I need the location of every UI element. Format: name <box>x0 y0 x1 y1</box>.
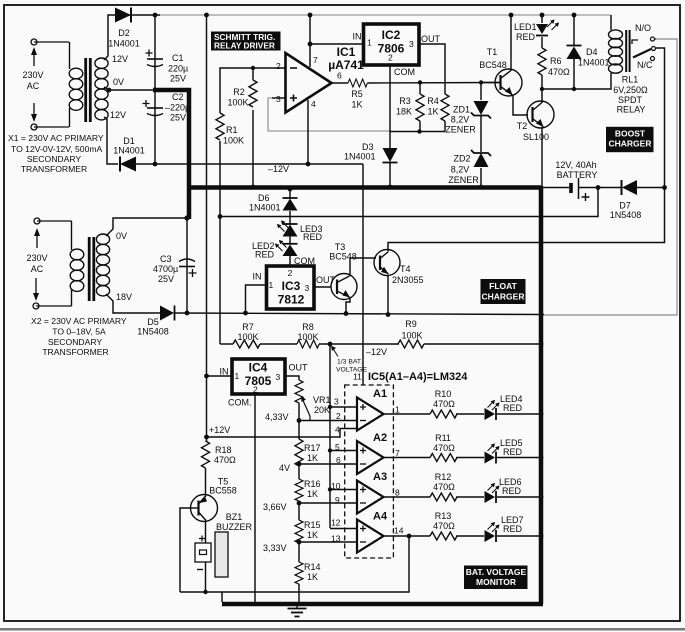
svg-text:D5: D5 <box>147 317 159 327</box>
svg-text:R13: R13 <box>435 511 452 521</box>
value label: R6 470ohm <box>548 56 570 77</box>
wire: -12V vertical rail x=363 down to LM324 pin 11 <box>362 164 364 385</box>
resistor R7 <box>233 340 260 348</box>
label box: FLOAT CHARGER <box>481 279 526 304</box>
wire: IC2 OUT down to R3/R4 node line <box>419 44 445 94</box>
junction: top +12V rail nodes <box>153 13 577 47</box>
svg-text:12V: 12V <box>110 110 126 120</box>
value label: R12 470ohm <box>433 472 455 492</box>
part label: LED6 RED <box>499 477 522 496</box>
svg-text:R7: R7 <box>242 322 254 332</box>
pin labels: IC1 pins 2,3,7,4,6 <box>276 55 342 109</box>
IC4 7805 box <box>232 359 285 394</box>
node label: 230V AC (X1) <box>22 70 43 91</box>
wire: resistor ladder column x=299 <box>298 403 300 604</box>
svg-text:470Ω: 470Ω <box>214 455 236 465</box>
svg-text:A4: A4 <box>373 511 388 523</box>
svg-text:0V: 0V <box>113 77 124 87</box>
value label: R8 100K <box>297 322 318 342</box>
value label: R14 1K <box>304 562 321 582</box>
junction: X2 0V to bus node <box>184 215 189 220</box>
resistor R9 <box>398 340 424 348</box>
svg-text:4: 4 <box>335 425 340 435</box>
wire: X2 0V tap to thick bus bottom end <box>106 218 189 236</box>
svg-text:A1: A1 <box>373 388 387 400</box>
wire: relay coil top to rail corner <box>610 15 612 30</box>
svg-text:R9: R9 <box>405 319 417 329</box>
part label: IC5 heading <box>368 371 468 383</box>
relay RL1 coil and core <box>609 30 631 73</box>
svg-text:1: 1 <box>269 280 274 290</box>
svg-text:R10: R10 <box>435 389 452 399</box>
svg-text:R1: R1 <box>226 125 238 135</box>
svg-text:D4: D4 <box>586 47 598 57</box>
svg-text:IN: IN <box>353 32 362 42</box>
svg-text:BC558: BC558 <box>209 486 237 496</box>
wire: T4 emitter down to line y=314.5 <box>387 275 389 315</box>
svg-text:A3: A3 <box>373 471 387 483</box>
value label: C1 220u 25V <box>168 53 188 84</box>
junction: A4 output and buzzer loop nodes <box>203 534 411 595</box>
op-amp A1 <box>357 398 384 431</box>
svg-text:C3: C3 <box>160 254 172 264</box>
svg-text:D6: D6 <box>258 193 270 203</box>
svg-text:–12V: –12V <box>268 164 289 174</box>
svg-text:R8: R8 <box>302 322 314 332</box>
svg-text:R5: R5 <box>351 89 363 99</box>
part label: T3 BC548 <box>329 242 357 262</box>
svg-text:6V,250Ω: 6V,250Ω <box>613 85 648 95</box>
svg-text:8,2V: 8,2V <box>451 115 470 125</box>
LED LED3 <box>277 220 298 236</box>
value label: VR1 20K <box>313 395 331 415</box>
wire: IC4 COM down to bottom bus <box>254 394 256 604</box>
svg-text:VR1: VR1 <box>313 395 331 405</box>
part label: BZ1 BUZZER <box>216 512 253 532</box>
junction: X1 0V tap node <box>107 88 112 93</box>
svg-text:ZENER: ZENER <box>445 125 476 135</box>
svg-text:20K: 20K <box>314 405 330 415</box>
value label: C2 220u 25V <box>165 92 190 123</box>
svg-text:R2: R2 <box>233 87 245 97</box>
resistor R2 <box>249 80 257 107</box>
node label: N/O N/C <box>635 23 653 70</box>
wire: LED1/R6 column from top rail <box>541 15 543 89</box>
svg-text:N/O: N/O <box>635 23 651 33</box>
value label: R18 470ohm <box>214 445 236 465</box>
svg-text:BUZZER: BUZZER <box>216 522 253 532</box>
svg-text:IC5(A1–A4)=LM324: IC5(A1–A4)=LM324 <box>368 371 468 383</box>
svg-text:6: 6 <box>336 455 341 465</box>
svg-text:FLOAT: FLOAT <box>489 281 518 291</box>
svg-text:SECONDARY: SECONDARY <box>27 154 82 164</box>
svg-text:1N4001: 1N4001 <box>578 58 610 68</box>
svg-text:T1: T1 <box>487 47 498 57</box>
svg-text:12V: 12V <box>112 54 128 64</box>
svg-text:1K: 1K <box>307 489 318 499</box>
part label: LED5 RED <box>500 438 523 457</box>
wire: C1/C2 column <box>154 15 156 164</box>
wire: comparator output rows to LEDs and bus <box>383 414 541 536</box>
wire: X1 0V tap to thick bus <box>104 87 155 90</box>
svg-text:D2: D2 <box>118 28 130 38</box>
part label: IC1 uA741 <box>328 45 364 72</box>
value label: ZD2 8.2V ZENER <box>448 154 479 186</box>
svg-text:1N4001: 1N4001 <box>344 152 376 162</box>
diode D3 <box>383 148 398 163</box>
svg-text:ZENER: ZENER <box>448 175 479 185</box>
svg-text:100K: 100K <box>227 98 248 108</box>
svg-text:1N5408: 1N5408 <box>610 210 642 220</box>
svg-text:470Ω: 470Ω <box>433 443 455 453</box>
wire: op-amp pin3 stub <box>272 97 285 99</box>
wire: op-amp output through R5 to comparator node <box>331 82 500 85</box>
part label: T4 2N3055 <box>392 264 424 285</box>
svg-text:IN: IN <box>220 367 229 377</box>
wire: relay common pole to D7 line <box>656 48 665 188</box>
svg-text:BOOST: BOOST <box>615 128 646 138</box>
resistor R15 <box>295 520 303 543</box>
svg-text:MONITOR: MONITOR <box>476 577 516 587</box>
resistor R8 <box>297 340 319 348</box>
value label: D6 1N4001 <box>249 193 281 213</box>
svg-text:RED: RED <box>502 486 522 496</box>
resistor R4 <box>441 94 449 121</box>
part label: LED4 RED <box>500 394 523 413</box>
wire: relay N/O contact to float-charge sense line (gray right portion) <box>544 39 677 315</box>
svg-text:25V: 25V <box>158 274 174 284</box>
svg-text:14: 14 <box>394 526 404 536</box>
wire: T1 base from node <box>481 82 500 84</box>
wire: X1 12V top tap through D2 to top rail <box>104 15 160 60</box>
svg-text:100K: 100K <box>401 331 422 341</box>
svg-text:3: 3 <box>409 39 414 49</box>
svg-text:7: 7 <box>395 448 400 458</box>
wire: IC2 input from top rail <box>310 43 364 45</box>
LED LED7 <box>485 522 500 542</box>
svg-text:VOLTAGE: VOLTAGE <box>336 367 368 374</box>
svg-text:OUT: OUT <box>289 363 309 373</box>
svg-text:D1: D1 <box>123 136 135 146</box>
svg-text:N/C: N/C <box>637 60 653 70</box>
node label: 3.66V <box>263 502 287 512</box>
zener ZD2 <box>471 150 491 167</box>
svg-text:12: 12 <box>331 518 341 528</box>
svg-text:COM: COM <box>294 256 315 266</box>
wire: comparator plus input lines from sense column <box>330 407 357 529</box>
transformer X1 <box>69 42 108 127</box>
svg-text:RELAY: RELAY <box>617 105 646 115</box>
value label: R4 1K <box>427 96 439 117</box>
part label: battery 12V 40Ah <box>555 160 597 180</box>
svg-text:18V: 18V <box>116 292 132 302</box>
junction: ground bus taps <box>288 185 484 192</box>
node label: X2 description <box>31 316 127 357</box>
svg-text:18K: 18K <box>396 107 412 117</box>
svg-text:X2 = 230V AC PRIMARY: X2 = 230V AC PRIMARY <box>31 316 127 326</box>
LED LED1 <box>536 19 559 35</box>
svg-text:T4: T4 <box>400 264 411 274</box>
svg-text:1: 1 <box>367 38 372 48</box>
value label: R7 100K <box>237 322 258 342</box>
part label: LED2 RED <box>252 241 275 260</box>
svg-text:9: 9 <box>335 495 340 505</box>
svg-text:CHARGER: CHARGER <box>482 292 525 302</box>
svg-text:7805: 7805 <box>245 374 272 388</box>
wire: 1/3 battery voltage tap down to comparator + inputs <box>329 344 331 528</box>
node label: 4V <box>279 463 290 473</box>
svg-text:3: 3 <box>276 372 281 382</box>
resistor R13 <box>430 532 457 540</box>
svg-text:+12V: +12V <box>209 425 230 435</box>
svg-text:RED: RED <box>503 447 523 457</box>
svg-text:R3: R3 <box>399 96 411 106</box>
wire: battery row y=187.5 <box>541 187 665 189</box>
svg-text:4,33V: 4,33V <box>265 412 289 422</box>
svg-text:1K: 1K <box>427 107 438 117</box>
resistor R12 <box>430 493 457 501</box>
wire: +12V long vertical x=206.5 from top rail to IC4 IN and +12V node <box>206 15 208 437</box>
wire: T3 collector to T4 base <box>350 258 376 276</box>
preset VR1 20K <box>295 380 310 421</box>
part label: T2 SL100 <box>517 121 549 142</box>
svg-text:RELAY DRIVER: RELAY DRIVER <box>214 41 275 51</box>
svg-text:IC1: IC1 <box>337 45 356 59</box>
wire: R2 column <box>252 68 254 187</box>
svg-text:ZD2: ZD2 <box>453 154 470 164</box>
wire: IC2 COM / D3 column to ground bus <box>389 65 391 187</box>
svg-text:3: 3 <box>305 283 310 293</box>
IC3 7812 box <box>267 266 315 309</box>
resistor R11 <box>430 454 457 462</box>
transistor T3 BC548 <box>331 274 357 300</box>
junction: C2 negative node <box>153 162 158 167</box>
svg-text:TO 0–18V, 5A: TO 0–18V, 5A <box>52 327 106 337</box>
part label: T5 BC558 <box>209 477 237 496</box>
resistor R14 <box>295 562 303 584</box>
svg-text:7: 7 <box>313 55 318 65</box>
svg-text:T2: T2 <box>517 121 528 131</box>
svg-text:RED: RED <box>303 232 323 242</box>
svg-text:µA741: µA741 <box>328 58 364 72</box>
svg-text:1/3 BAT.: 1/3 BAT. <box>337 359 362 366</box>
svg-text:100K: 100K <box>297 332 318 342</box>
capacitor C1 <box>146 50 164 67</box>
svg-text:BATTERY: BATTERY <box>557 170 598 180</box>
wire: C3 column <box>186 219 188 313</box>
svg-text:SECONDARY: SECONDARY <box>48 337 103 347</box>
AC source terminals and arrows for X1 <box>31 39 69 130</box>
LED LED4 <box>485 400 500 420</box>
svg-text:1N4001: 1N4001 <box>108 39 140 49</box>
diode D1 <box>120 157 136 172</box>
svg-text:2N3055: 2N3055 <box>392 275 424 285</box>
wire: +12V feed line y=437 to LM324 pin4 <box>207 429 357 438</box>
battery BT 12V 40Ah <box>571 178 590 201</box>
svg-text:3,66V: 3,66V <box>263 502 287 512</box>
svg-text:4700µ: 4700µ <box>153 264 178 274</box>
wire: D7/relay node down to T4 collector line <box>388 188 665 252</box>
svg-text:R18: R18 <box>215 445 232 455</box>
wire: op-amp pin7 from top rail <box>309 15 311 67</box>
node label: X1 description <box>8 133 104 174</box>
wire: R6/D4/relay-coil bottom node to T2 collector <box>542 73 611 103</box>
svg-text:COM: COM <box>394 67 415 77</box>
svg-text:CHARGER: CHARGER <box>609 139 652 149</box>
svg-text:R15: R15 <box>304 520 321 530</box>
part label: RL1 relay <box>613 75 648 115</box>
net label: +12V <box>209 425 230 435</box>
transistor T1 BC548 <box>495 69 522 96</box>
svg-text:BZ1: BZ1 <box>226 512 243 522</box>
AC source terminals and arrows for X2 <box>33 218 72 309</box>
svg-text:LED1: LED1 <box>514 22 537 32</box>
svg-text:470Ω: 470Ω <box>433 482 455 492</box>
svg-text:1: 1 <box>395 405 400 415</box>
value label: R10 470ohm <box>433 389 455 409</box>
svg-text:R12: R12 <box>435 472 452 482</box>
svg-text:SL100: SL100 <box>523 132 549 142</box>
net label: -12V (left) <box>268 164 289 174</box>
svg-text:7812: 7812 <box>278 293 305 307</box>
LED LED6 <box>485 483 500 503</box>
svg-text:–12V: –12V <box>366 347 387 357</box>
wire: battery sense vertical x=220 (op-amp pin2 divider) <box>220 68 285 344</box>
svg-text:8,2V: 8,2V <box>451 165 470 175</box>
wire: T1 emitter to T2 base <box>513 95 528 115</box>
svg-text:3: 3 <box>334 397 339 407</box>
svg-text:25V: 25V <box>170 74 186 84</box>
part label: T1 BC548 <box>479 47 507 70</box>
junction: op-amp divider nodes <box>251 66 311 190</box>
transformer X2 <box>70 221 109 306</box>
svg-text:1N5408: 1N5408 <box>137 327 169 337</box>
svg-text:2: 2 <box>276 61 281 71</box>
svg-text:IC4: IC4 <box>249 361 268 375</box>
svg-text:TO 12V-0V-12V, 500mA: TO 12V-0V-12V, 500mA <box>11 144 103 154</box>
value label: R5 1K <box>351 89 363 110</box>
svg-text:OUT: OUT <box>421 34 441 44</box>
svg-text:RED: RED <box>255 250 275 260</box>
svg-text:1K: 1K <box>307 572 318 582</box>
node label: 3.33V <box>263 543 287 553</box>
node label: X2 taps 0V/18V <box>116 231 132 302</box>
value label: R17 1K <box>304 443 321 463</box>
wire: A4 output to buzzer loop <box>180 536 409 602</box>
value label: C3 4700u 25V <box>153 254 178 284</box>
svg-text:10: 10 <box>331 481 341 491</box>
value label: R3 18K <box>396 96 412 117</box>
transistor T4 2N3055 <box>374 250 400 276</box>
svg-text:0V: 0V <box>116 231 127 241</box>
svg-text:D7: D7 <box>619 201 631 211</box>
label box: BAT. VOLTAGE MONITOR <box>464 566 528 590</box>
svg-text:RED: RED <box>503 524 523 534</box>
svg-text:12V, 40Ah: 12V, 40Ah <box>555 160 596 170</box>
svg-text:TRANSFORMER: TRANSFORMER <box>42 347 108 357</box>
svg-text:R11: R11 <box>435 433 451 443</box>
wire: R18/T5/buzzer column <box>206 437 207 592</box>
wire: IC4 OUT to VR1 top <box>285 376 299 380</box>
svg-text:470Ω: 470Ω <box>548 67 570 77</box>
svg-text:2: 2 <box>336 411 341 421</box>
wire: X1 lower 12V tap to D1 / -12V line <box>104 117 363 164</box>
svg-text:R17: R17 <box>304 443 321 453</box>
svg-text:470Ω: 470Ω <box>433 521 455 531</box>
svg-text:1K: 1K <box>351 100 362 110</box>
transistor T2 SL100 <box>527 101 554 128</box>
junction: ladder tap nodes <box>297 418 302 544</box>
wire: IC4 IN stub <box>207 375 233 377</box>
diode D7 <box>622 180 638 195</box>
svg-text:A2: A2 <box>373 432 387 444</box>
wire: R3 top/bottom stubs and R3-R4 junction line <box>390 83 445 132</box>
svg-text:6: 6 <box>337 71 342 81</box>
svg-text:8: 8 <box>395 488 400 498</box>
svg-text:3,33V: 3,33V <box>263 543 287 553</box>
svg-text:BC548: BC548 <box>329 252 357 262</box>
svg-text:C2: C2 <box>172 92 184 102</box>
label box: BOOST CHARGER <box>606 127 654 152</box>
svg-text:470Ω: 470Ω <box>433 399 455 409</box>
wire: battery+ sense line y=216 to divider <box>220 188 598 217</box>
op-amp A4 <box>357 520 384 553</box>
buzzer BZ1 <box>195 532 228 577</box>
value label: R13 470ohm <box>433 511 455 531</box>
LED LED2 <box>275 240 298 256</box>
svg-text:TRANSFORMER: TRANSFORMER <box>21 164 87 174</box>
svg-text:2: 2 <box>288 268 293 278</box>
svg-text:100K: 100K <box>237 332 258 342</box>
op-amp IC1 uA741 triangle <box>286 53 332 113</box>
wire: IC3 OUT to T3 base <box>314 286 331 288</box>
value label: D3 1N4001 <box>344 142 376 162</box>
node label: 230V AC (X2) <box>26 253 47 274</box>
svg-text:4V: 4V <box>279 463 290 473</box>
wire: op-amp pin3 feedback path (gray) <box>268 98 390 131</box>
diode D4 <box>567 46 582 60</box>
value label: R16 1K <box>304 479 321 499</box>
label box: SCHMITT TRIG. RELAY DRIVER <box>211 32 281 51</box>
svg-text:X1 = 230V AC PRIMARY: X1 = 230V AC PRIMARY <box>8 133 104 143</box>
part label: LED7 RED <box>501 515 524 534</box>
svg-text:–220µ: –220µ <box>165 103 190 113</box>
svg-text:R4: R4 <box>427 96 439 106</box>
svg-text:100K: 100K <box>223 136 244 146</box>
resistor R3 <box>416 94 424 121</box>
svg-text:13: 13 <box>331 534 341 544</box>
wire: T5 base to loop <box>180 508 193 592</box>
capacitor C2 <box>143 100 164 116</box>
wire: op-amp pin4 to -12V <box>307 100 309 164</box>
junction: boost drive node R6/D4/T2 <box>540 87 576 91</box>
wire: D4 column from top rail <box>573 15 575 89</box>
junction: IC4 input and +12V nodes <box>204 374 209 440</box>
svg-text:AC: AC <box>31 264 44 274</box>
svg-text:OUT: OUT <box>316 275 336 285</box>
wire: main 0V/ground thick bus (L from X1 0V tap down and across) <box>153 90 541 219</box>
wire: T3 emitter to -12V line <box>346 297 350 313</box>
wire: comparator minus input lines from ladder nodes <box>299 421 357 543</box>
junction: LED cathode bus taps <box>539 412 544 539</box>
wire: R7/R8/R9 divider line y=344 <box>220 343 541 345</box>
svg-text:25V: 25V <box>170 113 186 123</box>
svg-text:IC2: IC2 <box>382 28 401 42</box>
value label: R11 470ohm <box>433 433 455 453</box>
svg-text:1N4001: 1N4001 <box>249 203 281 213</box>
junction: reference node R3/ZD1/T1 <box>417 80 483 133</box>
wire: T2 emitter down to battery bus <box>541 127 543 186</box>
